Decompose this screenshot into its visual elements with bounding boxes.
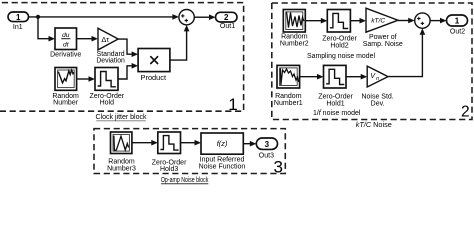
svg-text:In1: In1 bbox=[13, 24, 23, 31]
wire Zero-Order Hold3 to f(z) bbox=[181, 140, 202, 146]
svg-text:Hold1: Hold1 bbox=[326, 101, 344, 108]
block Derivative du/dt bbox=[50, 28, 81, 58]
svg-text:Number: Number bbox=[53, 100, 79, 107]
subsystem boundary 1: Clock jitter block dashed rect bbox=[0, 3, 244, 112]
svg-text:Deviation: Deviation bbox=[96, 58, 125, 65]
subsystem boundary 2: kT/C Noise dashed rect bbox=[272, 3, 472, 120]
inport In1 bbox=[8, 12, 29, 31]
wire Zero-Order Hold2 to kT/C gain bbox=[350, 18, 366, 24]
svg-text:Out2: Out2 bbox=[450, 29, 465, 36]
svg-text:1/f noise model: 1/f noise model bbox=[313, 110, 361, 117]
svg-text:Out1: Out1 bbox=[220, 23, 235, 30]
caption Clock jitter block bbox=[96, 114, 147, 121]
wire Sum2 to Out2 bbox=[430, 18, 446, 24]
svg-text:1: 1 bbox=[228, 95, 237, 114]
svg-text:Noise Function: Noise Function bbox=[199, 164, 246, 171]
svg-text:Out3: Out3 bbox=[259, 153, 274, 160]
wire Random Number1 to Zero-Order Hold1 bbox=[300, 74, 324, 80]
svg-text:1: 1 bbox=[16, 13, 21, 22]
block Zero-Order Hold1 bbox=[318, 65, 353, 107]
svg-text:Zero-Order: Zero-Order bbox=[318, 93, 353, 100]
wire junction to Derivative bbox=[38, 17, 55, 42]
svg-text:2: 2 bbox=[461, 103, 470, 120]
svg-text:Zero-Order: Zero-Order bbox=[322, 36, 357, 43]
annotation big 3 bbox=[273, 157, 282, 176]
outport Out1 bbox=[216, 12, 238, 30]
wire Derivative to Standard Deviation bbox=[77, 36, 99, 42]
wire Random Number3 to Zero-Order Hold3 bbox=[132, 140, 158, 146]
block Zero-Order Hold (staircase) bbox=[89, 68, 124, 107]
wire f(z) to Out3 bbox=[243, 141, 256, 147]
svg-text:Hold2: Hold2 bbox=[330, 43, 348, 50]
svg-text:Number2: Number2 bbox=[280, 41, 309, 48]
wire Random Number2 to Zero-Order Hold2 bbox=[305, 18, 327, 24]
outport Out3 bbox=[256, 138, 277, 160]
svg-text:Clock jitter block: Clock jitter block bbox=[96, 114, 147, 121]
gain Standard Deviation (delta-tau triangle) bbox=[96, 28, 125, 64]
gain Vn (Noise Std. Dev.) bbox=[361, 66, 393, 107]
outport Out2 bbox=[447, 15, 468, 36]
wire Vn to Sum2 (up) bbox=[388, 28, 425, 76]
block Zero-Order Hold3 bbox=[152, 132, 187, 173]
svg-text:1: 1 bbox=[455, 17, 460, 26]
svg-text:Number3: Number3 bbox=[107, 165, 136, 172]
block f(z) Input Referred Noise Function bbox=[199, 133, 246, 171]
svg-text:3: 3 bbox=[265, 140, 270, 149]
caption kT/C Noise bbox=[356, 122, 392, 129]
svg-text:Input Referred: Input Referred bbox=[200, 157, 245, 164]
svg-text:n: n bbox=[376, 76, 379, 82]
svg-text:Random: Random bbox=[275, 93, 302, 100]
svg-text:Hold3: Hold3 bbox=[160, 166, 178, 173]
block Product bbox=[138, 49, 170, 83]
gain kT/C (Power of Samp. Noise) bbox=[363, 8, 403, 48]
sum Sum1 bbox=[179, 10, 194, 25]
annotation big 1 bbox=[228, 95, 237, 114]
svg-text:Power of: Power of bbox=[369, 34, 397, 41]
svg-text:Random: Random bbox=[281, 33, 308, 40]
wire Zero-Order Hold to Product input 2 bbox=[118, 63, 138, 79]
svg-text:3: 3 bbox=[273, 157, 282, 176]
block Zero-Order Hold2 bbox=[322, 10, 357, 50]
svg-text:Noise Std.: Noise Std. bbox=[361, 94, 393, 101]
svg-text:du: du bbox=[62, 32, 70, 39]
svg-text:Random: Random bbox=[108, 158, 135, 165]
wire Sum1 to Out1 bbox=[194, 14, 215, 20]
junction node bbox=[36, 15, 40, 19]
wire Product to Sum1 bbox=[170, 25, 190, 60]
svg-text:Δτ: Δτ bbox=[101, 35, 109, 44]
subsystem boundary 3: Op-amp Noise block dashed rect bbox=[94, 129, 285, 174]
wire Random Number to Zero-Order Hold bbox=[77, 76, 95, 82]
caption Sampling noise model bbox=[307, 53, 375, 60]
block Random Number3 bbox=[107, 132, 136, 172]
caption Op-amp Noise block bbox=[161, 177, 209, 184]
svg-text:kT/C Noise: kT/C Noise bbox=[356, 122, 392, 129]
sum Sum2 bbox=[415, 13, 430, 28]
svg-text:f(z): f(z) bbox=[217, 139, 228, 148]
block Random Number1 bbox=[274, 65, 303, 107]
block Random Number2 bbox=[280, 10, 309, 48]
svg-text:Op-amp Noise block: Op-amp Noise block bbox=[161, 177, 209, 184]
svg-text:Derivative: Derivative bbox=[50, 51, 81, 58]
svg-text:Number1: Number1 bbox=[274, 100, 303, 107]
wire Zero-Order Hold1 to Vn gain bbox=[346, 74, 367, 80]
wire kT/C to Sum2 bbox=[398, 18, 415, 24]
svg-text:Sampling noise model: Sampling noise model bbox=[307, 53, 375, 60]
wire In1 to Sum1 bbox=[29, 14, 179, 20]
svg-text:Hold: Hold bbox=[100, 100, 115, 107]
svg-text:kT/C: kT/C bbox=[371, 17, 385, 24]
caption 1/f noise model bbox=[313, 110, 361, 117]
wire Standard Deviation to Product input 1 bbox=[118, 39, 138, 57]
block Random Number (1) bbox=[52, 68, 79, 107]
svg-text:Samp. Noise: Samp. Noise bbox=[363, 41, 403, 48]
svg-text:Dev.: Dev. bbox=[371, 101, 385, 108]
annotation big 2 bbox=[461, 103, 470, 120]
svg-text:Product: Product bbox=[141, 75, 167, 82]
svg-text:2: 2 bbox=[224, 13, 229, 22]
